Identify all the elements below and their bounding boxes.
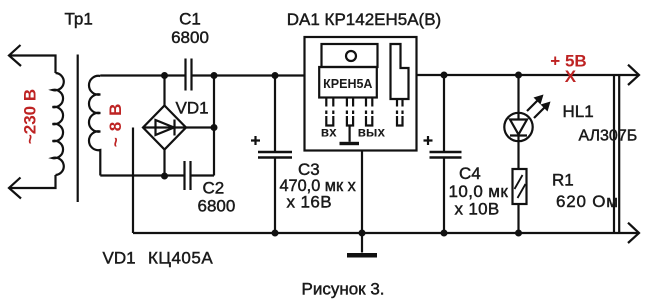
svg-text:VD1: VD1 — [176, 99, 209, 118]
svg-text:КЦ405А: КЦ405А — [148, 249, 213, 268]
svg-text:Тр1: Тр1 — [65, 10, 93, 29]
svg-text:С1: С1 — [179, 10, 201, 29]
svg-text:VD1: VD1 — [103, 249, 136, 268]
svg-text:6800: 6800 — [171, 28, 209, 47]
svg-text:вх: вх — [321, 125, 337, 140]
svg-text:х 16В: х 16В — [287, 193, 332, 212]
svg-text:х 10В: х 10В — [455, 200, 500, 219]
svg-text:6800: 6800 — [198, 197, 236, 216]
svg-text:КРЕН5А: КРЕН5А — [323, 77, 372, 91]
svg-text:~230 В: ~230 В — [20, 89, 39, 144]
svg-text:DA1 КР142ЕН5А(В): DA1 КР142ЕН5А(В) — [287, 10, 441, 29]
svg-text:620 Ом: 620 Ом — [556, 192, 619, 211]
svg-text:HL1: HL1 — [563, 102, 594, 121]
svg-text:~ 8 В: ~ 8 В — [106, 103, 125, 147]
svg-text:10,0 мк: 10,0 мк — [449, 182, 509, 201]
svg-text:С2: С2 — [203, 179, 225, 198]
svg-text:Х: Х — [565, 67, 577, 86]
svg-text:вых: вых — [358, 125, 386, 140]
svg-text:Рисунок 3.: Рисунок 3. — [302, 280, 385, 299]
svg-text:С4: С4 — [459, 164, 481, 183]
svg-text:АЛ307Б: АЛ307Б — [579, 128, 638, 145]
svg-text:R1: R1 — [552, 171, 574, 190]
